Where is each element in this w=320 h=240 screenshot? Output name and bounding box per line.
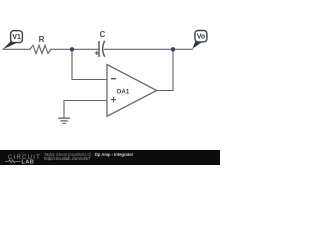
svg-text:http//circuitlab.com/c957: http//circuitlab.com/c957 — [44, 156, 91, 161]
svg-text:Vo: Vo — [197, 34, 205, 41]
svg-text:LAB: LAB — [22, 159, 35, 165]
svg-text:V1: V1 — [12, 34, 21, 41]
svg-text:OA1: OA1 — [117, 88, 130, 95]
svg-text:C: C — [100, 30, 106, 39]
svg-text:R: R — [39, 35, 45, 44]
